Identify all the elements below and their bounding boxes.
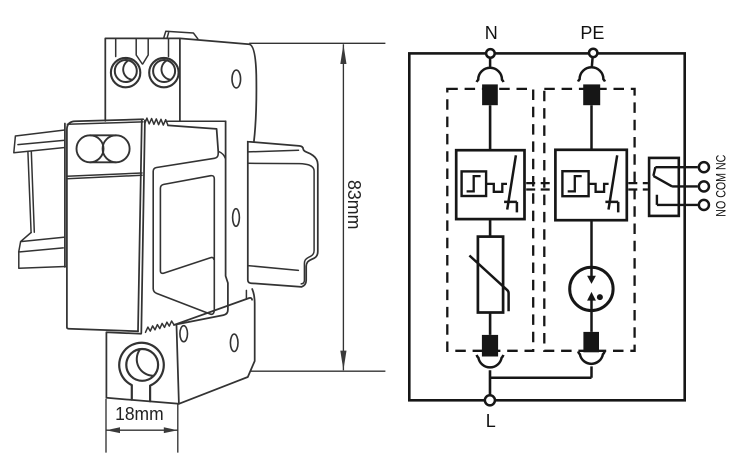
svg-text:L: L (486, 411, 496, 431)
svg-text:N: N (485, 23, 498, 43)
svg-text:83mm: 83mm (344, 180, 364, 230)
svg-text:PE: PE (580, 23, 604, 43)
svg-text:NO COM NC: NO COM NC (712, 155, 728, 217)
svg-text:18mm: 18mm (115, 404, 164, 424)
